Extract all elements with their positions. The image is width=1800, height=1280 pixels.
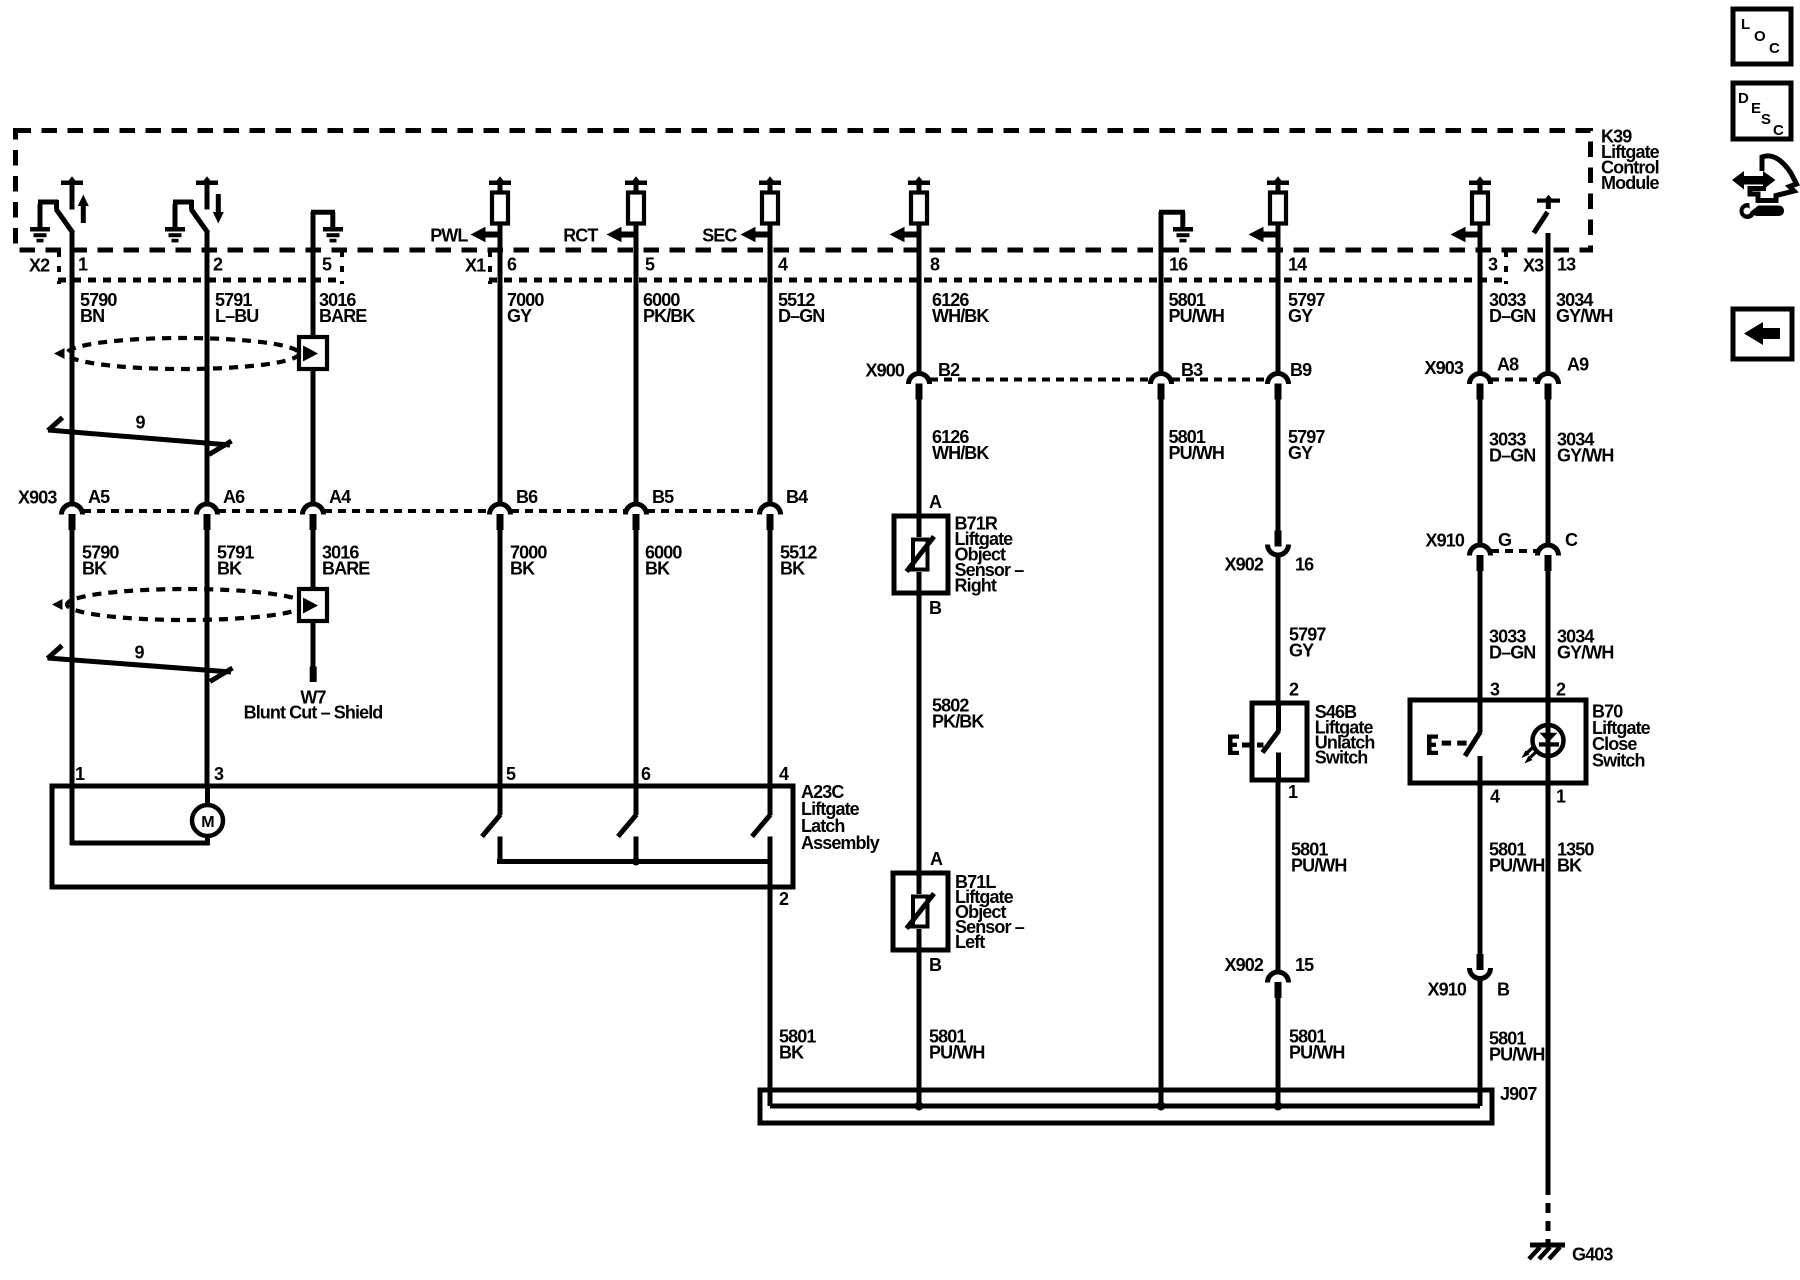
svg-text:GY/WH: GY/WH [1557,446,1614,466]
svg-text:Right: Right [955,576,997,596]
J907 junction dot 1 [915,1102,924,1111]
svg-text:16: 16 [1295,555,1314,575]
wire 5797 (X902-16 to S46B) [1276,556,1281,703]
svg-text:X902: X902 [1225,955,1264,975]
svg-text:Left: Left [955,932,985,952]
wire 3016 lower (X903-A4 to W7) [311,529,316,667]
wire 5801 (X902-15 to J907) [1276,998,1281,1107]
svg-text:Assembly: Assembly [801,833,880,853]
bundle count 9 line upper [48,430,230,445]
svg-text:Switch: Switch [1592,751,1645,771]
svg-text:X2: X2 [29,256,50,276]
icon LOC box [1733,9,1791,64]
wire to G403 dashed [1546,1185,1551,1243]
wire 5797 (X900-B9 to X902) [1276,398,1281,531]
svg-text:PK/BK: PK/BK [932,712,984,732]
icon vehicle outline [1750,156,1797,201]
svg-text:X903: X903 [1425,358,1464,378]
A23C internal bus [497,859,772,864]
svg-text:4: 4 [779,764,789,784]
svg-text:9: 9 [134,643,144,663]
J907 splice pack box [760,1090,1492,1123]
svg-text:BK: BK [779,1043,804,1063]
svg-text:5: 5 [322,255,332,275]
svg-text:2: 2 [213,255,223,275]
svg-text:A5: A5 [88,487,110,507]
svg-text:1: 1 [1556,787,1566,807]
svg-text:BK: BK [1557,856,1582,876]
switch liftgate-down inside module (wire X2-2) [165,227,185,232]
twisted-pair ellipse upper [67,338,299,369]
svg-text:B5: B5 [652,487,674,507]
connector X903 (left) dashed line [83,509,196,513]
svg-text:GY: GY [1288,306,1313,326]
svg-text:GY: GY [1289,641,1314,661]
svg-text:GY: GY [507,306,532,326]
wire 5801 (B70-4 to X910-B) [1478,783,1483,955]
svg-text:D–GN: D–GN [1489,643,1535,663]
svg-text:2: 2 [1556,680,1566,700]
J907 junction dot 3 [1274,1102,1283,1111]
svg-text:14: 14 [1288,255,1307,275]
A23C pin 2 exit wire [768,862,773,888]
svg-text:6: 6 [641,764,651,784]
wire 3034 upper (X3-13 to X903-A9) [1546,233,1551,373]
svg-text:A9: A9 [1567,355,1589,375]
svg-text:BARE: BARE [322,559,370,579]
connector X903 pin A5 [62,504,83,515]
switch liftgate-up inside module (wire X2-1) [30,227,50,232]
svg-text:3: 3 [1490,680,1500,700]
svg-text:2: 2 [779,889,789,909]
svg-text:B: B [929,955,942,975]
svg-text:BK: BK [82,559,107,579]
svg-text:C: C [1565,530,1578,550]
svg-text:SEC: SEC [702,226,737,246]
arrow on wire 5797 [1262,232,1278,238]
svg-text:Blunt Cut – Shield: Blunt Cut – Shield [244,703,383,723]
svg-text:1: 1 [78,255,88,275]
svg-text:WH/BK: WH/BK [932,443,989,463]
svg-text:B4: B4 [786,487,808,507]
module resistor at x=1278 [1267,181,1289,186]
module resistor at x=636 [625,181,647,186]
svg-text:D: D [1738,90,1749,107]
bundle count 9 line lower [48,658,232,672]
arrow on wire 3033 [1464,232,1480,238]
wire 3016 upper (X2-5 to X903-A4) [311,212,316,503]
connector X2 right edge [340,251,344,284]
svg-text:X903: X903 [18,488,57,508]
svg-text:L: L [1741,16,1750,33]
connector X910 G/C dashed line [1491,549,1537,553]
connector X903 pin B4 [760,504,781,515]
module resistor at x=770 [759,181,781,186]
svg-text:PU/WH: PU/WH [1169,443,1225,463]
connector X910 pin C [1538,545,1559,556]
module K39 Liftgate Control Module dashed box [16,131,1591,251]
wire 3033 (X903-A8 to X910-G) [1478,398,1483,544]
svg-text:PU/WH: PU/WH [1489,1045,1545,1065]
wire 3034 (X910-C to B70) [1546,570,1551,700]
svg-text:WH/BK: WH/BK [932,306,989,326]
shield drain box upper (wire 3016) [299,337,327,369]
svg-text:D–GN: D–GN [778,306,824,326]
wire 6126 (X900-B2 to B71R) [917,398,922,516]
wire 3033 (X910-G to B70) [1478,570,1483,700]
module resistor at x=919 [908,181,930,186]
svg-text:X900: X900 [866,361,905,381]
svg-text:X3: X3 [1523,256,1544,276]
svg-text:GY: GY [1288,443,1313,463]
svg-text:S: S [1761,111,1771,128]
wire 5797 upper (X1-14 to X900-B9) [1276,224,1281,373]
svg-text:5: 5 [645,255,655,275]
W7 blunt cut shield stub [310,667,317,683]
wire 5801 PU/WH (X900-B3 to J907) [1159,398,1164,1106]
connector X900 dashed line [930,378,1150,382]
wire 6126 upper (X1-8 to X900-B2) [917,224,922,373]
connector X902 pin 16 [1275,531,1282,547]
wire 5801 BK (A23C-2 to J907) [768,887,773,1106]
connector X2 bottom dashed line [58,278,343,283]
connector X903 pin B5 [626,504,647,515]
svg-text:B: B [929,598,942,618]
B71L Liftgate Object Sensor Left box [893,873,948,950]
connector X2 separator [57,251,61,284]
svg-text:M: M [201,814,214,831]
svg-text:PU/WH: PU/WH [1291,856,1347,876]
latch switch 2 in A23C (wire 6000) [634,786,639,815]
svg-text:Module: Module [1601,173,1659,193]
connector X1/X3 bottom dashed line [489,278,1508,283]
svg-text:PU/WH: PU/WH [1489,856,1545,876]
svg-text:PK/BK: PK/BK [643,306,695,326]
connector X902 pin 15 [1268,972,1289,982]
svg-text:B: B [1497,980,1510,1000]
svg-text:PU/WH: PU/WH [929,1043,985,1063]
latch switch 3 in A23C (wire 5512) [768,786,773,815]
svg-text:PWL: PWL [430,226,468,246]
svg-text:X910: X910 [1428,980,1467,1000]
arrow on wire 6126 [903,232,919,238]
wire 7000 upper (X1-6 to X903-B6) [498,224,503,504]
wire 3034 (X903-A9 to X910-C) [1546,398,1551,544]
connector X1 separator [488,251,492,284]
icon vehicle double-arrow [1742,176,1764,185]
wire 3033 upper (X3-3 to X903-A8) [1478,224,1483,373]
wire 5791 lower (X903-A6 to A23C) [205,529,210,786]
wire 6000 upper (X1-5 to X903-B5) [634,224,639,504]
svg-text:16: 16 [1169,255,1188,275]
connector X900 pin B3 [1151,374,1172,384]
svg-text:B6: B6 [516,487,538,507]
svg-text:E: E [1751,100,1761,117]
connector X903 pin A8 [1470,374,1491,384]
twisted-pair ellipse lower [67,589,305,620]
svg-text:BK: BK [780,559,805,579]
icon back-arrow box [1733,309,1792,359]
svg-text:A: A [929,492,942,512]
module resistor at x=1480 [1469,181,1491,186]
J907 bus line [770,1104,1480,1109]
svg-text:GY/WH: GY/WH [1557,643,1614,663]
svg-text:3: 3 [1488,255,1498,275]
svg-text:BK: BK [217,559,242,579]
module resistor at x=500 [489,181,511,186]
connector X910 pin G [1470,545,1491,556]
icon DESC box [1733,83,1791,139]
svg-text:PU/WH: PU/WH [1289,1043,1345,1063]
wire 6000 lower (X903-B5 to A23C) [634,529,639,786]
svg-text:3: 3 [214,764,224,784]
icon wrench [1740,203,1756,219]
connector X3 separator [1504,251,1508,284]
wire 5801 PU/WH (B71L to J907) [917,950,922,1106]
svg-text:15: 15 [1295,955,1314,975]
svg-text:G403: G403 [1572,1245,1613,1265]
svg-text:A: A [930,849,943,869]
wire 1350 BK (B70-1 down) [1546,783,1551,1185]
svg-text:1: 1 [75,764,85,784]
svg-text:BK: BK [510,559,535,579]
svg-text:6: 6 [507,255,517,275]
svg-text:L–BU: L–BU [215,306,258,326]
wire 5801 (X910-B to J907) [1478,980,1483,1107]
ground lead wire X1-16 [1159,210,1185,215]
wire 5790 lower (X903-A5 to A23C) [70,529,75,786]
B70 Liftgate Close Switch box [1410,700,1586,783]
G403 chassis ground symbol [1530,1243,1565,1248]
svg-text:GY/WH: GY/WH [1556,306,1613,326]
svg-text:Switch: Switch [1315,748,1368,768]
svg-text:B3: B3 [1181,360,1203,380]
svg-text:PU/WH: PU/WH [1169,306,1225,326]
svg-text:8: 8 [930,255,940,275]
svg-text:BN: BN [80,306,104,326]
wire 5801 upper (X1-16 to X900-B3) [1159,212,1164,373]
svg-text:5: 5 [506,764,516,784]
wire 5791 upper (X2-2 to X903-A6) [205,231,210,503]
wire 5512 upper (X1-4 to X903-B4) [768,224,773,504]
svg-text:2: 2 [1289,680,1299,700]
connector X900 pin B9 [1268,374,1289,384]
svg-text:C: C [1773,122,1784,139]
svg-text:B2: B2 [938,360,960,380]
svg-text:X910: X910 [1426,531,1465,551]
svg-text:A6: A6 [223,487,245,507]
connector X903 pin A4 [303,504,324,515]
svg-text:9: 9 [135,413,145,433]
module switch on X3-13 [1537,199,1560,203]
svg-text:D–GN: D–GN [1489,306,1535,326]
ground lead wire X2-5 [311,210,335,215]
svg-text:RCT: RCT [563,226,598,246]
svg-text:4: 4 [1490,787,1500,807]
svg-text:13: 13 [1557,255,1576,275]
wire 5801 (S46B to X902-15) [1276,780,1281,971]
svg-text:B9: B9 [1290,360,1312,380]
svg-text:4: 4 [778,255,788,275]
motor M in A23C [70,786,75,845]
connector X903 pin A9 [1538,374,1559,384]
wire 5512 lower (X903-B4 to A23C) [768,529,773,786]
svg-text:1: 1 [1288,782,1298,802]
connector X903 pin B6 [490,504,511,515]
svg-text:C: C [1769,40,1780,57]
wire 5802 PK/BK (B71R to B71L) [917,593,922,873]
connector X900 pin B2 [909,374,930,384]
A23C Liftgate Latch Assembly box [52,786,793,887]
connector X903 (right) dashed line [1491,378,1537,382]
svg-text:X902: X902 [1225,555,1264,575]
svg-text:O: O [1754,28,1766,45]
J907 junction dot 2 [1157,1102,1166,1111]
shield drain box lower (wire 3016) [299,589,327,621]
svg-text:G: G [1498,530,1511,550]
svg-text:A8: A8 [1497,355,1519,375]
svg-text:BARE: BARE [319,306,367,326]
connector X903 pin A6 [197,504,218,515]
B71R Liftgate Object Sensor Right box [894,516,948,593]
svg-text:J907: J907 [1500,1084,1537,1104]
svg-text:BK: BK [645,559,670,579]
connector X910 pin B [1477,954,1484,970]
wire 7000 lower (X903-B6 to A23C) [498,529,503,786]
svg-text:D–GN: D–GN [1489,446,1535,466]
S46B Liftgate Unlatch Switch box [1252,703,1307,780]
svg-text:X1: X1 [465,256,486,276]
svg-text:A4: A4 [329,487,351,507]
wire 5790 upper (X2-1 to X903-A5) [70,231,75,503]
latch switch 1 in A23C (wire 7000) [498,786,503,815]
